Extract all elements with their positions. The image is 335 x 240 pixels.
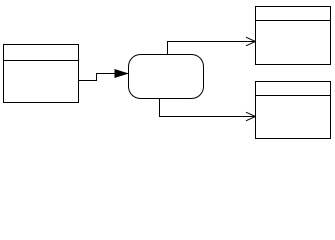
open arrowhead into D1 <box>246 37 256 46</box>
divider line of box E1 <box>4 60 79 62</box>
open arrowhead into D2 <box>246 112 256 121</box>
wire: connector P1 to D1 (elbow, up then right) <box>168 42 256 55</box>
divider line of box D1 <box>256 20 331 22</box>
process P1 (rounded rectangle, center) <box>129 55 204 99</box>
data store box D2 (bottom right) <box>256 82 331 139</box>
wire: connector E1 to P1 (elbow) <box>79 74 129 81</box>
filled arrowhead into P1 <box>115 69 130 78</box>
wire: connector P1 to D2 (elbow, down then right) <box>160 99 256 117</box>
external entity box E1 (left) <box>4 45 79 103</box>
divider line of box D2 <box>256 95 331 97</box>
data store box D1 (top right) <box>256 7 331 65</box>
